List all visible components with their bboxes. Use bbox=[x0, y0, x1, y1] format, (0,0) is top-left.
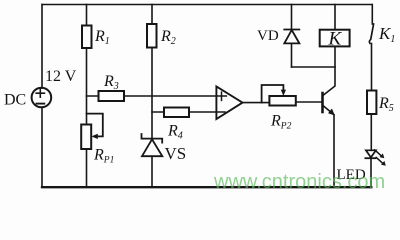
wire inverting input: R4 line bbox=[152, 111, 225, 113]
wire R1 bottom to RP1 top bbox=[86, 48, 88, 125]
wire VD column from top rail bbox=[291, 5, 293, 30]
potentiometer RP2 wiper arrowhead bbox=[281, 90, 286, 96]
svg-text:www.cntronics.com: www.cntronics.com bbox=[213, 171, 385, 193]
transistor Q1 collector bbox=[324, 46, 336, 95]
resistor R5 box bbox=[367, 91, 376, 115]
LED arrowhead 1 bbox=[380, 153, 385, 158]
LED D1 triangle bbox=[366, 150, 376, 157]
resistor R2 box bbox=[147, 24, 157, 48]
wire LED bottom bbox=[370, 158, 372, 187]
diode VD bar bbox=[284, 29, 299, 31]
wire top rail bbox=[42, 4, 372, 6]
svg-text:12 V: 12 V bbox=[45, 68, 77, 85]
svg-text:DC: DC bbox=[4, 92, 26, 109]
wire R2 bottom down to zener bbox=[151, 48, 153, 138]
svg-text:VD: VD bbox=[257, 28, 279, 44]
svg-text:VS: VS bbox=[165, 144, 187, 163]
wire K1 lower lead to R5 bbox=[371, 44, 373, 91]
diode VD triangle bbox=[284, 30, 299, 43]
zener diode VS bar bbox=[142, 134, 163, 143]
LED emission arrow 2 bbox=[376, 157, 382, 162]
transistor Q1 emitter bbox=[324, 106, 334, 115]
wire VD-to-collector link bbox=[292, 66, 336, 68]
potentiometer RP1 wiper arrowhead bbox=[91, 134, 98, 139]
DC source V1 circle bbox=[32, 88, 52, 108]
LED D1 cathode bar bbox=[365, 157, 375, 159]
wire VD bottom bbox=[291, 43, 293, 67]
wire RP2 to transistor base bbox=[296, 101, 322, 103]
wire noninverting input: R3 line bbox=[87, 95, 227, 97]
LED emission arrow 1 bbox=[375, 150, 381, 155]
wire left rail upper bbox=[41, 5, 43, 89]
resistor R3 box bbox=[99, 91, 125, 101]
resistor R4 box bbox=[164, 108, 189, 118]
potentiometer RP2 wiper loop bbox=[262, 85, 284, 103]
wire left rail lower bbox=[41, 107, 43, 187]
potentiometer RP1 box bbox=[81, 125, 91, 150]
wire bottom rail bbox=[42, 186, 371, 188]
wire RP1 bottom bbox=[86, 149, 88, 187]
zener diode VS triangle bbox=[142, 139, 162, 156]
transistor Q1 emitter arrowhead bbox=[328, 109, 335, 116]
DC source plus sign bbox=[36, 89, 44, 97]
wire zener bottom bbox=[151, 156, 153, 187]
LED arrowhead 2 bbox=[381, 161, 386, 166]
resistor R1 box bbox=[82, 26, 92, 49]
potentiometer RP2 box bbox=[269, 96, 295, 106]
wire R1 column top bbox=[86, 5, 88, 26]
transistor Q1 base bar bbox=[321, 93, 324, 112]
potentiometer RP1 wiper loop bbox=[87, 114, 103, 137]
switch K1 blade bbox=[369, 24, 373, 43]
wire R5 bottom to LED bbox=[370, 114, 372, 150]
op-amp plus input mark bbox=[221, 92, 223, 100]
DC source minus sign bbox=[37, 103, 45, 105]
svg-text:K: K bbox=[328, 29, 343, 50]
wire emitter down to bottom rail bbox=[333, 115, 335, 187]
wire op-amp output to RP2 bbox=[243, 102, 270, 104]
op-amp U1 triangle bbox=[216, 86, 242, 119]
wire R2 column top bbox=[151, 5, 153, 25]
switch K1 upper lead bbox=[371, 5, 373, 25]
wire K coil column top bbox=[334, 5, 336, 30]
relay coil K box bbox=[320, 30, 350, 47]
